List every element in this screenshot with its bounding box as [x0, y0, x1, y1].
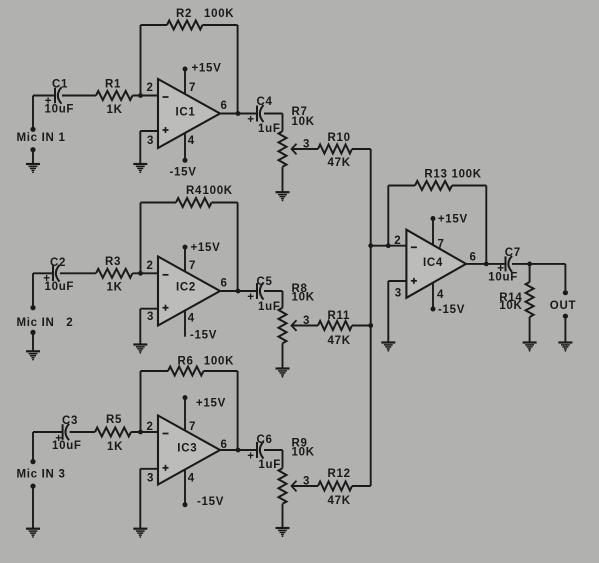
- resistor R1: [96, 79, 133, 117]
- wire pin3 to ground ch2: [140, 309, 158, 344]
- wire pot to ground ch3: [282, 504, 284, 528]
- svg-text:10K: 10K: [292, 116, 315, 128]
- ground: [133, 164, 147, 173]
- svg-text:R2: R2: [176, 8, 192, 20]
- svg-text:2: 2: [147, 260, 154, 272]
- node bus R11 junction: [368, 323, 373, 328]
- svg-text:-15V: -15V: [170, 167, 197, 179]
- svg-text:-15V: -15V: [190, 330, 217, 342]
- svg-text:7: 7: [189, 421, 196, 433]
- power +15V ch1: [183, 63, 222, 95]
- power +15V ch2: [183, 242, 221, 272]
- node C7 output junction: [527, 262, 532, 267]
- svg-text:100K: 100K: [204, 356, 234, 368]
- ground: [523, 343, 537, 352]
- resistor R14: [499, 264, 533, 342]
- svg-text:1uF: 1uF: [258, 301, 281, 313]
- wiper arrow pin 3 R8: [292, 315, 319, 331]
- power -15V ch1: [170, 133, 197, 179]
- svg-text:2: 2: [394, 235, 401, 247]
- wire mic branch ch1: [32, 96, 34, 164]
- ground: [276, 528, 290, 537]
- power +15V IC4: [431, 214, 468, 246]
- ground: [133, 529, 147, 538]
- svg-text:R13 100K: R13 100K: [424, 169, 481, 181]
- svg-text:C3: C3: [62, 415, 78, 427]
- wire pot to ground ch2: [282, 343, 284, 368]
- resistor R11: [318, 310, 352, 347]
- svg-text:3: 3: [303, 315, 310, 327]
- wire mic branch ch3: [32, 432, 34, 528]
- wire feedback loop ch1: [141, 25, 238, 114]
- op-amp IC4: [406, 230, 466, 298]
- wire bus to IC4 pin2: [371, 245, 407, 247]
- wire feedback loop IC4: [388, 186, 486, 264]
- capacitor C1: [45, 79, 75, 116]
- svg-text:R5: R5: [106, 414, 122, 426]
- svg-text:IC4: IC4: [423, 257, 443, 269]
- wire to OUT terminal: [564, 264, 566, 290]
- svg-text:1K: 1K: [107, 104, 123, 116]
- resistor R12: [318, 468, 352, 507]
- svg-text:4: 4: [188, 313, 195, 325]
- svg-text:R11: R11: [328, 310, 351, 322]
- svg-text:10K: 10K: [292, 292, 315, 304]
- svg-text:1uF: 1uF: [258, 459, 281, 471]
- svg-text:2: 2: [147, 82, 154, 94]
- svg-text:IC3: IC3: [177, 443, 197, 455]
- svg-text:+: +: [247, 114, 254, 126]
- svg-text:OUT: OUT: [550, 300, 576, 312]
- wire output ch2: [220, 291, 283, 308]
- node inverting input ch1: [138, 93, 143, 98]
- resistor R4: [176, 185, 233, 207]
- resistor R13: [415, 169, 482, 191]
- svg-text:3: 3: [303, 476, 310, 488]
- svg-text:10uF: 10uF: [52, 440, 82, 452]
- capacitor C4: [247, 96, 280, 135]
- power -15V IC4: [431, 283, 466, 316]
- svg-text:C7: C7: [505, 247, 521, 259]
- svg-text:+15V: +15V: [192, 63, 222, 75]
- svg-text:47K: 47K: [328, 157, 351, 169]
- svg-text:+: +: [247, 292, 254, 304]
- svg-text:3: 3: [147, 135, 154, 147]
- wire output ch3: [220, 450, 283, 468]
- potentiometer R9: [279, 438, 315, 504]
- wire feedback loop ch3: [141, 371, 238, 450]
- svg-text:+15V: +15V: [191, 242, 221, 254]
- svg-text:4: 4: [437, 289, 444, 301]
- wire R11 to bus: [352, 325, 371, 327]
- svg-text:C2: C2: [50, 257, 66, 269]
- node inverting input ch3: [138, 430, 143, 435]
- power -15V ch2: [185, 311, 217, 342]
- ground: [26, 351, 40, 360]
- resistor R6: [168, 356, 234, 376]
- wire input ch3: [33, 431, 158, 433]
- svg-text:2: 2: [147, 421, 154, 433]
- svg-text:7: 7: [189, 82, 196, 94]
- wire output ch1: [220, 114, 283, 132]
- svg-text:IC2: IC2: [176, 282, 196, 294]
- node Mic IN 3: [17, 459, 66, 489]
- svg-text:C5: C5: [257, 276, 273, 288]
- potentiometer R8: [279, 283, 315, 343]
- svg-text:Mic IN 3: Mic IN 3: [17, 469, 66, 481]
- wire R12 to bus: [352, 485, 371, 487]
- svg-text:10uF: 10uF: [45, 281, 75, 293]
- power -15V ch3: [183, 470, 225, 509]
- wire input ch1: [33, 95, 158, 97]
- svg-text:1K: 1K: [107, 441, 123, 453]
- svg-text:10uF: 10uF: [45, 104, 75, 116]
- svg-text:7: 7: [189, 260, 196, 272]
- svg-text:Mic IN 2: Mic IN 2: [17, 317, 74, 329]
- ground: [133, 345, 147, 354]
- svg-text:-15V: -15V: [438, 304, 465, 316]
- svg-text:47K: 47K: [328, 335, 351, 347]
- ground: [276, 192, 290, 201]
- svg-text:10uF: 10uF: [488, 272, 518, 284]
- svg-text:R10: R10: [328, 132, 351, 144]
- svg-text:R4: R4: [186, 185, 202, 197]
- op-amp IC2: [158, 257, 220, 326]
- capacitor C6: [247, 434, 281, 471]
- svg-text:4: 4: [188, 135, 195, 147]
- svg-text:+15V: +15V: [196, 398, 226, 410]
- svg-text:6: 6: [470, 252, 477, 264]
- svg-text:R3: R3: [105, 256, 121, 268]
- svg-text:IC1: IC1: [176, 107, 196, 119]
- ground: [26, 529, 40, 538]
- ground: [276, 369, 290, 378]
- wire R10 to bus: [352, 148, 371, 150]
- svg-text:Mic IN 1: Mic IN 1: [17, 132, 66, 144]
- node output ch3: [236, 448, 241, 453]
- wire mic branch ch2: [32, 273, 34, 351]
- svg-text:47K: 47K: [328, 495, 351, 507]
- capacitor C3: [52, 415, 82, 452]
- op-amp IC1: [158, 79, 220, 148]
- node OUT: [550, 290, 576, 319]
- svg-text:6: 6: [221, 100, 228, 112]
- ground: [558, 343, 572, 352]
- node IC4 output feedback: [484, 262, 489, 267]
- capacitor C7: [488, 247, 521, 284]
- wire summing bus: [370, 149, 372, 486]
- svg-text:C1: C1: [52, 79, 68, 91]
- svg-text:+15V: +15V: [438, 214, 468, 226]
- capacitor C5: [247, 276, 280, 313]
- svg-text:3: 3: [303, 139, 310, 151]
- svg-text:+: +: [247, 451, 254, 463]
- op-amp IC3: [158, 416, 220, 485]
- svg-text:1K: 1K: [107, 282, 123, 294]
- svg-text:4: 4: [188, 473, 195, 485]
- svg-text:3: 3: [147, 311, 154, 323]
- svg-text:3: 3: [147, 473, 154, 485]
- wire pin3 to ground ch3: [140, 469, 158, 528]
- svg-text:100K: 100K: [204, 8, 234, 20]
- svg-text:3: 3: [395, 288, 402, 300]
- ground: [26, 164, 40, 173]
- wire IC4 pin3 to ground: [388, 281, 406, 342]
- resistor R10: [318, 132, 352, 169]
- node Mic IN 1: [17, 127, 66, 153]
- wire IC4 output: [466, 263, 565, 265]
- svg-text:-15V: -15V: [197, 496, 224, 508]
- wire feedback loop ch2: [141, 203, 238, 292]
- svg-text:R1: R1: [105, 79, 121, 91]
- node inverting input ch2: [138, 271, 143, 276]
- svg-text:10K: 10K: [292, 447, 315, 459]
- power +15V ch3: [183, 395, 226, 430]
- svg-text:7: 7: [438, 239, 445, 251]
- wire OUT ground branch: [564, 319, 566, 342]
- node output ch2: [236, 289, 241, 294]
- svg-text:6: 6: [221, 278, 228, 290]
- ground: [381, 343, 395, 352]
- svg-text:R12: R12: [328, 468, 351, 480]
- svg-text:C6: C6: [257, 434, 273, 446]
- node Mic IN 2: [17, 305, 74, 335]
- svg-text:100K: 100K: [203, 185, 233, 197]
- node output ch1: [236, 111, 241, 116]
- wiper arrow pin 3 R7: [292, 139, 319, 155]
- wire input ch2: [33, 272, 158, 274]
- wiper arrow pin 3 R9: [292, 476, 319, 492]
- resistor R2: [167, 8, 234, 30]
- resistor R5: [95, 414, 131, 453]
- node bus IC4 input junction: [368, 243, 373, 248]
- node feedback junction IC4: [386, 243, 391, 248]
- svg-text:C4: C4: [257, 96, 273, 108]
- svg-text:R6: R6: [178, 356, 194, 368]
- capacitor C2: [43, 257, 74, 293]
- resistor R3: [96, 256, 133, 294]
- wire pin3 to ground ch1: [140, 131, 158, 164]
- wire pot to ground ch1: [282, 167, 284, 192]
- potentiometer R7: [279, 106, 315, 167]
- svg-text:10K: 10K: [499, 300, 522, 312]
